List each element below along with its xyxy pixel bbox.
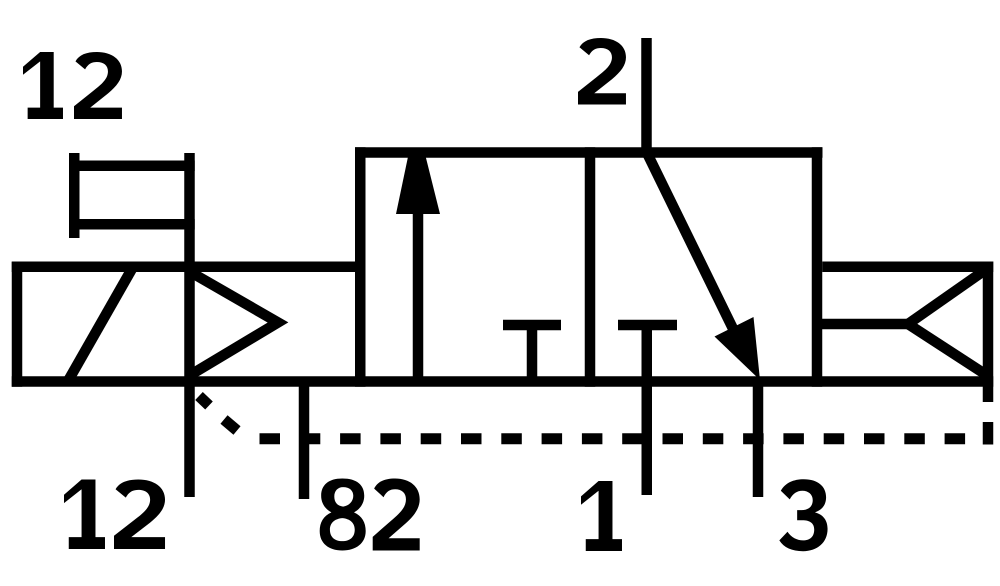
valve right square right edge — [812, 147, 823, 387]
up arrow head — [396, 152, 440, 214]
right square diagonal flow line — [647, 153, 740, 343]
up arrow shaft — [413, 200, 424, 382]
dashed diagonal dash 1 — [199, 396, 209, 406]
right square diagonal arrow head — [715, 317, 761, 380]
right attachment top edge — [822, 262, 993, 273]
port 12 vertical line — [184, 153, 195, 497]
right vertical dash — [983, 422, 994, 445]
pilot port 12 bracket bottom bar — [69, 219, 195, 230]
label 2 top — [578, 38, 626, 105]
dashed override line — [260, 433, 281, 444]
label 82 bottom — [320, 479, 420, 551]
port 3 vertical line — [753, 378, 764, 497]
port 2 vertical line — [641, 38, 652, 152]
dashed diagonal dash 2 — [224, 420, 237, 431]
pilot box left edge — [12, 262, 23, 387]
label 3 bottom — [779, 479, 827, 551]
pilot port 12 bracket left vertical — [69, 153, 80, 238]
right triangle bottom side — [908, 324, 988, 376]
right attachment mid line — [817, 319, 908, 330]
valve left square left edge — [355, 147, 366, 387]
pilot box diagonal — [68, 267, 133, 381]
right T blocked port bar — [618, 320, 677, 331]
port 82 vertical line — [299, 384, 310, 499]
valve squares top edge — [355, 147, 823, 158]
pilot box top edge — [12, 262, 366, 273]
left T blocked port stem — [527, 325, 538, 382]
right triangle top side — [908, 268, 988, 324]
valve squares divider — [585, 147, 596, 387]
right attachment right vertical — [983, 262, 994, 403]
bottom edge full width — [12, 376, 994, 387]
pilot triangle — [190, 272, 279, 376]
port 1 vertical line — [642, 325, 653, 495]
label 12 top — [23, 52, 122, 119]
label 12 bottom — [64, 480, 165, 550]
label 1 bottom — [581, 481, 622, 551]
pilot port 12 bracket top bar — [69, 161, 195, 172]
left T blocked port bar — [503, 320, 561, 331]
